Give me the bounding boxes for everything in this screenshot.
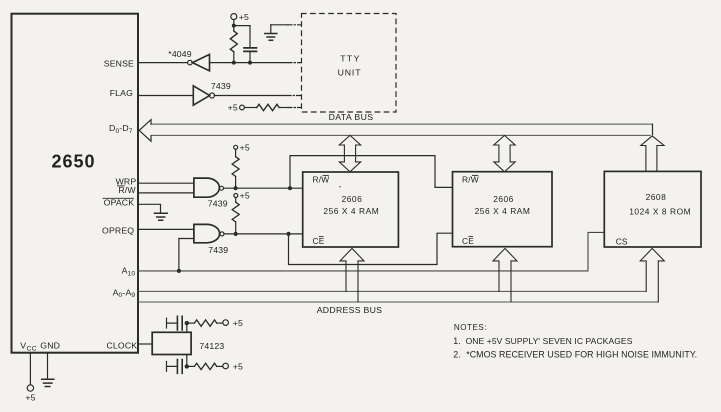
svg-text:CS: CS <box>616 236 628 246</box>
svg-text:CC: CC <box>27 345 37 352</box>
svg-text:+5: +5 <box>240 191 250 201</box>
svg-text:OPREQ: OPREQ <box>102 226 134 236</box>
svg-text:7439: 7439 <box>211 81 231 91</box>
svg-text:TTY: TTY <box>340 54 361 64</box>
svg-text:UNIT: UNIT <box>338 67 362 77</box>
svg-text:OPACK: OPACK <box>104 198 135 208</box>
svg-text:7439: 7439 <box>208 199 228 209</box>
svg-text:FLAG: FLAG <box>110 88 133 98</box>
svg-text:ONE +5V SUPPLY' SEVEN IC PACKA: ONE +5V SUPPLY' SEVEN IC PACKAGES <box>466 336 633 346</box>
svg-text:74123: 74123 <box>199 341 224 351</box>
svg-text:2606: 2606 <box>493 194 514 204</box>
svg-text:R/W: R/W <box>118 185 136 195</box>
svg-text:256 X 4 RAM: 256 X 4 RAM <box>475 206 531 216</box>
svg-text:ADDRESS BUS: ADDRESS BUS <box>317 305 383 315</box>
svg-text:CLOCK: CLOCK <box>107 340 138 350</box>
svg-text:*4049: *4049 <box>168 49 191 59</box>
svg-text:2608: 2608 <box>646 192 667 202</box>
svg-text:CE: CE <box>313 236 325 246</box>
svg-text:2.: 2. <box>453 350 461 360</box>
svg-text:1024 X 8 ROM: 1024 X 8 ROM <box>629 207 691 217</box>
svg-text:+5: +5 <box>233 318 243 328</box>
svg-text:7439: 7439 <box>208 245 228 255</box>
svg-text:256 X 4 RAM: 256 X 4 RAM <box>323 206 379 216</box>
svg-text:R/W: R/W <box>313 175 330 185</box>
svg-text:GND: GND <box>40 341 60 351</box>
svg-text:+5: +5 <box>25 392 35 402</box>
svg-text:2606: 2606 <box>342 194 363 204</box>
svg-text:+5: +5 <box>240 143 250 153</box>
svg-text:R/W: R/W <box>462 175 479 185</box>
svg-text:SENSE: SENSE <box>104 58 134 68</box>
svg-text:+5: +5 <box>228 103 238 113</box>
svg-text:2650: 2650 <box>51 152 95 172</box>
svg-text:": " <box>339 186 341 192</box>
svg-text:DATA BUS: DATA BUS <box>329 112 374 122</box>
svg-text:V: V <box>20 341 26 351</box>
svg-text:+5: +5 <box>239 12 249 22</box>
svg-text:*CMOS RECEIVER USED FOR HIGH N: *CMOS RECEIVER USED FOR HIGH NOISE IMMUN… <box>466 350 697 360</box>
svg-text:NOTES:: NOTES: <box>454 323 487 332</box>
svg-text:+5: +5 <box>233 361 243 371</box>
svg-text:1.: 1. <box>453 336 461 346</box>
svg-text:CE: CE <box>462 236 474 246</box>
